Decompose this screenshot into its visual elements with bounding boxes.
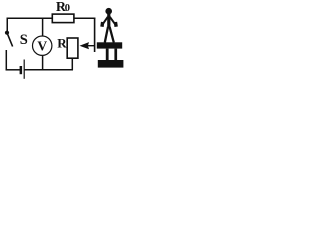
svg-text:S: S: [20, 32, 28, 48]
svg-text:R: R: [57, 35, 67, 50]
svg-text:0: 0: [65, 3, 70, 14]
svg-text:V: V: [37, 38, 47, 53]
